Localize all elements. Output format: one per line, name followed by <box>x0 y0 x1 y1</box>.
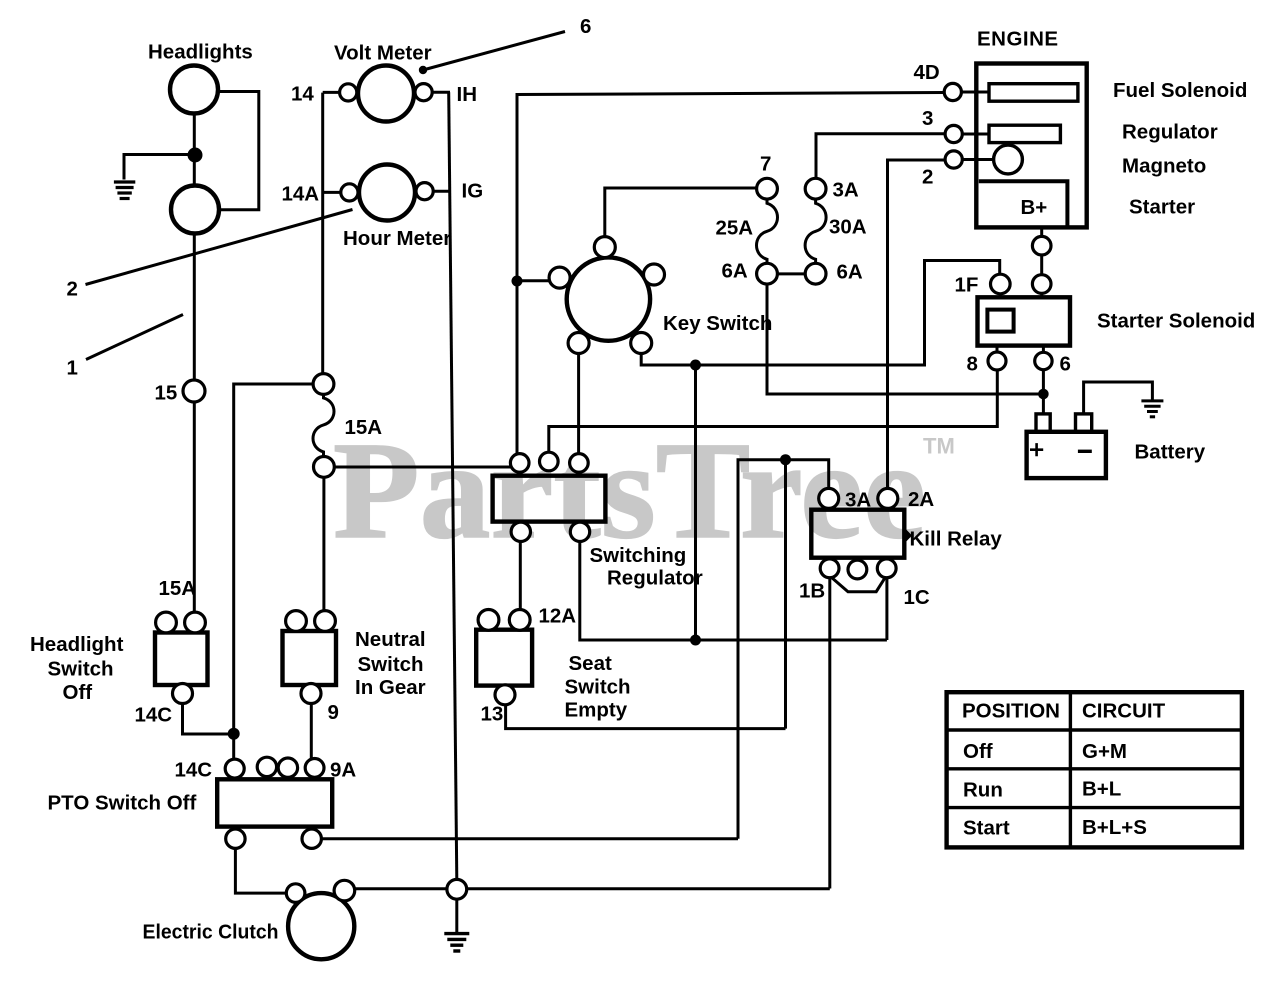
svg-text:Magneto: Magneto <box>1122 155 1206 178</box>
svg-text:B+L: B+L <box>1082 778 1121 801</box>
svg-text:1F: 1F <box>955 274 979 297</box>
pin key top <box>594 237 615 258</box>
svg-text:15A: 15A <box>345 416 383 439</box>
svg-text:Switch: Switch <box>48 658 114 681</box>
svg-text:Fuel Solenoid: Fuel Solenoid <box>1113 79 1247 102</box>
svg-text:Kill Relay: Kill Relay <box>910 528 1003 551</box>
wire net 2 to kill relay 2A <box>888 160 946 488</box>
wire net 4D <box>517 93 944 454</box>
battery plus sign <box>1030 443 1043 456</box>
pin solenoid 6 <box>1035 352 1052 369</box>
junction 14C net <box>228 728 240 740</box>
table divider vertical <box>1069 692 1072 847</box>
wire headlights right loop <box>218 92 259 210</box>
wire 8 stub <box>996 346 999 353</box>
wire neutral 9 to 9A <box>310 704 313 760</box>
svg-text:Key Switch: Key Switch <box>663 312 772 335</box>
svg-text:6: 6 <box>580 15 591 38</box>
ground headlights <box>114 182 135 199</box>
solenoid coil box <box>987 310 1013 332</box>
svg-text:9A: 9A <box>330 759 356 782</box>
battery terminal minus <box>1076 414 1092 432</box>
svg-text:14C: 14C <box>175 759 213 782</box>
svg-text:PTO Switch Off: PTO Switch Off <box>48 792 197 815</box>
junction key net <box>690 360 701 371</box>
svg-text:1C: 1C <box>904 586 930 609</box>
pin volt meter left <box>340 84 357 101</box>
wire key lower-left to regulator <box>577 354 580 454</box>
pin regulator bottom-right <box>570 522 589 541</box>
junction headlights <box>188 148 203 163</box>
wire regulator to seat 12A <box>519 542 522 610</box>
pin pto middle-1 <box>257 757 276 776</box>
pin regulator bottom-left <box>511 522 530 541</box>
wire net 1C to regulator <box>580 542 887 640</box>
wire battery minus to ground <box>1084 382 1153 414</box>
pin pto bottom-left <box>226 829 245 848</box>
ground bottom <box>444 934 469 951</box>
pin kill 2A <box>878 488 898 508</box>
pin regulator top-left <box>510 454 529 473</box>
electric clutch body <box>288 893 354 959</box>
fuel solenoid element <box>989 84 1078 102</box>
wire 4D stub <box>961 91 989 94</box>
wire key upper-left pin to net 4D <box>517 279 550 282</box>
wire between headlamps <box>193 114 196 186</box>
pin neutral top-right <box>315 611 336 632</box>
pin regulator top-right <box>570 454 589 473</box>
svg-text:TM: TM <box>923 434 955 459</box>
connector ground net <box>447 879 467 899</box>
svg-text:14A: 14A <box>282 183 320 206</box>
pin volt meter right <box>415 84 432 101</box>
connector 6A right <box>805 263 826 284</box>
wire kill bottom bridge <box>831 577 886 592</box>
wire trunk 14/14A to 15A fuse <box>321 93 324 374</box>
neutral switch box <box>283 631 337 685</box>
svg-text:IG: IG <box>462 180 484 203</box>
svg-text:14C: 14C <box>135 704 173 727</box>
svg-text:25A: 25A <box>716 217 754 240</box>
pin engine 4D <box>944 83 961 100</box>
svg-text:8: 8 <box>967 353 978 376</box>
pin key lower-left <box>568 333 589 354</box>
wire seat 13 to kill junction <box>506 705 786 729</box>
svg-text:Empty: Empty <box>565 699 628 722</box>
key switch body <box>567 257 650 340</box>
connector battery cable <box>1032 236 1051 255</box>
pin seat 12A <box>509 610 530 631</box>
pin clutch left <box>286 884 305 903</box>
pin solenoid 1F <box>991 274 1011 294</box>
kill relay box <box>811 510 904 558</box>
starter solenoid box <box>978 297 1071 345</box>
battery box <box>1027 432 1106 478</box>
pointer line 1 <box>86 315 183 360</box>
junction kill net <box>780 454 791 465</box>
wire 1F stub <box>999 292 1002 297</box>
junction 6 / 25A net <box>1038 389 1049 400</box>
pin headlight switch bottom <box>173 684 193 704</box>
svg-text:CIRCUIT: CIRCUIT <box>1082 700 1166 723</box>
wire 15A net to regulator <box>334 466 510 469</box>
svg-text:B+L+S: B+L+S <box>1082 816 1147 839</box>
svg-text:7: 7 <box>760 153 771 176</box>
wire 3 stub <box>962 133 989 136</box>
connector 15A fuse bottom <box>314 457 335 478</box>
wire 6 stub <box>1042 346 1045 353</box>
svg-text:Headlights: Headlights <box>148 41 253 64</box>
pin pto 14C <box>225 759 244 778</box>
pin regulator top-middle <box>540 452 559 471</box>
wire B+ to starter solenoid <box>1040 227 1043 297</box>
svg-text:30A: 30A <box>829 216 867 239</box>
svg-text:Starter Solenoid: Starter Solenoid <box>1097 310 1255 333</box>
pin key lower-right <box>631 333 652 354</box>
ground battery <box>1141 401 1163 417</box>
pin solenoid 8 <box>988 352 1006 370</box>
pin neutral top-left <box>286 611 307 632</box>
regulator element <box>989 125 1060 142</box>
pin clutch right <box>334 880 355 901</box>
wire junction down to net 640 <box>694 365 697 640</box>
wire pto bottom-left to clutch <box>235 848 286 893</box>
wire headlights to ground <box>124 155 194 180</box>
svg-text:1B: 1B <box>799 580 825 603</box>
svg-text:Headlight: Headlight <box>30 633 124 656</box>
headlamp lower <box>171 186 219 234</box>
magneto element <box>994 145 1023 174</box>
wire 6A bridge <box>777 272 805 275</box>
connector 7 <box>757 178 778 199</box>
svg-text:Switching: Switching <box>590 544 687 567</box>
pin solenoid top <box>1032 275 1051 294</box>
wire 6 to battery <box>1042 370 1045 414</box>
fuse 15A <box>313 394 334 456</box>
svg-text:6A: 6A <box>837 261 863 284</box>
svg-text:In Gear: In Gear <box>355 676 426 699</box>
fuse 30A <box>805 199 826 263</box>
pointer line 6 <box>423 32 565 71</box>
fuse 25A <box>757 199 778 263</box>
wire IH stub <box>432 91 450 94</box>
pin key upper-left <box>549 267 570 288</box>
svg-text:Off: Off <box>63 681 93 704</box>
wire 2 stub <box>962 158 993 161</box>
svg-text:9: 9 <box>328 701 339 724</box>
wire key lower-right to starter solenoid 1F <box>641 261 1000 366</box>
svg-text:Starter: Starter <box>1129 196 1195 219</box>
wire clutch to ground net <box>355 887 830 890</box>
svg-text:ENGINE: ENGINE <box>977 28 1059 51</box>
wire net 15 headlights to headlight switch <box>193 234 196 613</box>
svg-text:4D: 4D <box>914 61 940 84</box>
svg-text:2: 2 <box>922 166 933 189</box>
svg-text:G+M: G+M <box>1082 740 1127 763</box>
wire net 14C trunk <box>234 384 314 759</box>
wire IG stub <box>433 190 451 193</box>
wire fuse to neutral switch <box>322 477 325 611</box>
table row line 3 <box>947 806 1242 809</box>
table box <box>947 692 1242 847</box>
pin key upper-right <box>644 264 665 285</box>
wire 14 <box>323 91 340 94</box>
pin kill bottom middle <box>848 560 867 579</box>
wire headlight switch 14C <box>183 704 234 735</box>
connector 15 <box>183 380 205 402</box>
battery terminal plus <box>1036 414 1050 432</box>
wire 14A <box>323 191 341 194</box>
wire 8 to switching regulator <box>549 370 998 452</box>
pin pto bottom-right <box>302 829 321 848</box>
battery minus sign <box>1078 450 1092 453</box>
pin seat 13 <box>495 685 515 705</box>
junction net 4D / key <box>512 276 523 287</box>
pin pto 9A <box>305 759 324 778</box>
pointer line 2 <box>86 210 353 285</box>
wire junction to seat net <box>784 460 787 729</box>
table row line 1 <box>947 728 1242 731</box>
engine box <box>976 64 1086 228</box>
seat switch box <box>476 630 532 686</box>
junction net 640 <box>690 635 701 646</box>
pin neutral bottom <box>301 684 321 704</box>
volt meter <box>358 66 414 122</box>
svg-text:Electric Clutch: Electric Clutch <box>143 921 279 944</box>
svg-text:Start: Start <box>963 817 1010 840</box>
wire 1C down <box>885 578 888 640</box>
svg-text:Neutral: Neutral <box>355 628 426 651</box>
svg-text:Switch: Switch <box>565 676 631 699</box>
pin kill 1B <box>820 559 839 578</box>
pto switch box <box>217 779 332 826</box>
pin seat top-left <box>478 610 499 631</box>
pointer dot 6 <box>419 66 427 74</box>
svg-text:Volt Meter: Volt Meter <box>334 42 432 65</box>
svg-text:13: 13 <box>481 703 504 726</box>
svg-text:B+: B+ <box>1021 196 1048 219</box>
svg-text:2A: 2A <box>908 488 934 511</box>
svg-text:POSITION: POSITION <box>962 700 1060 723</box>
switching regulator box <box>493 476 606 522</box>
wire 1B down to clutch net <box>828 578 831 889</box>
svg-text:Switch: Switch <box>358 653 424 676</box>
svg-text:Hour Meter: Hour Meter <box>343 227 451 250</box>
pin engine 3 <box>945 125 962 142</box>
svg-text:15A: 15A <box>159 577 197 600</box>
svg-text:Run: Run <box>963 779 1003 802</box>
connector 3A fuse <box>805 178 826 199</box>
svg-text:14: 14 <box>291 83 314 106</box>
svg-text:15: 15 <box>155 382 178 405</box>
svg-text:6: 6 <box>1060 353 1071 376</box>
svg-text:3: 3 <box>922 107 933 130</box>
wire pto bottom-right to kill net <box>321 837 738 840</box>
pin headlight switch top-left <box>156 612 177 633</box>
headlamp upper <box>170 66 218 114</box>
wire net 3 to fuse 30A <box>816 134 945 179</box>
pin kill 3A <box>819 488 839 508</box>
pin hour meter left <box>341 184 358 201</box>
B+ terminal box <box>979 181 1068 226</box>
wire kill relay top net <box>738 460 829 839</box>
connector 15A fuse top <box>313 374 334 395</box>
svg-text:2: 2 <box>67 278 78 301</box>
pin kill 1C <box>877 559 896 578</box>
svg-text:12A: 12A <box>539 605 577 628</box>
pin headlight switch top-right <box>185 612 206 633</box>
svg-text:IH: IH <box>457 83 478 106</box>
pin hour meter right <box>416 183 433 200</box>
svg-text:1: 1 <box>67 357 78 380</box>
svg-text:Battery: Battery <box>1135 441 1206 464</box>
pin engine 2 <box>945 151 962 168</box>
wire 6A to battery junction <box>767 284 1043 394</box>
svg-text:Regulator: Regulator <box>1122 121 1218 144</box>
table row line 2 <box>947 767 1242 770</box>
svg-text:6A: 6A <box>722 260 748 283</box>
hour meter <box>359 165 415 221</box>
wire key to connector 7 <box>605 188 757 237</box>
svg-text:Regulator: Regulator <box>607 567 703 590</box>
connector 6A left <box>757 263 778 284</box>
kill relay tab <box>904 528 912 544</box>
wire trunk IH/IG <box>449 92 457 879</box>
pin pto middle-2 <box>278 758 297 777</box>
svg-text:3A: 3A <box>833 179 859 202</box>
svg-text:Seat: Seat <box>569 652 612 675</box>
wire to bottom ground <box>455 899 458 932</box>
headlight switch box <box>155 633 208 686</box>
svg-text:Off: Off <box>963 740 993 763</box>
